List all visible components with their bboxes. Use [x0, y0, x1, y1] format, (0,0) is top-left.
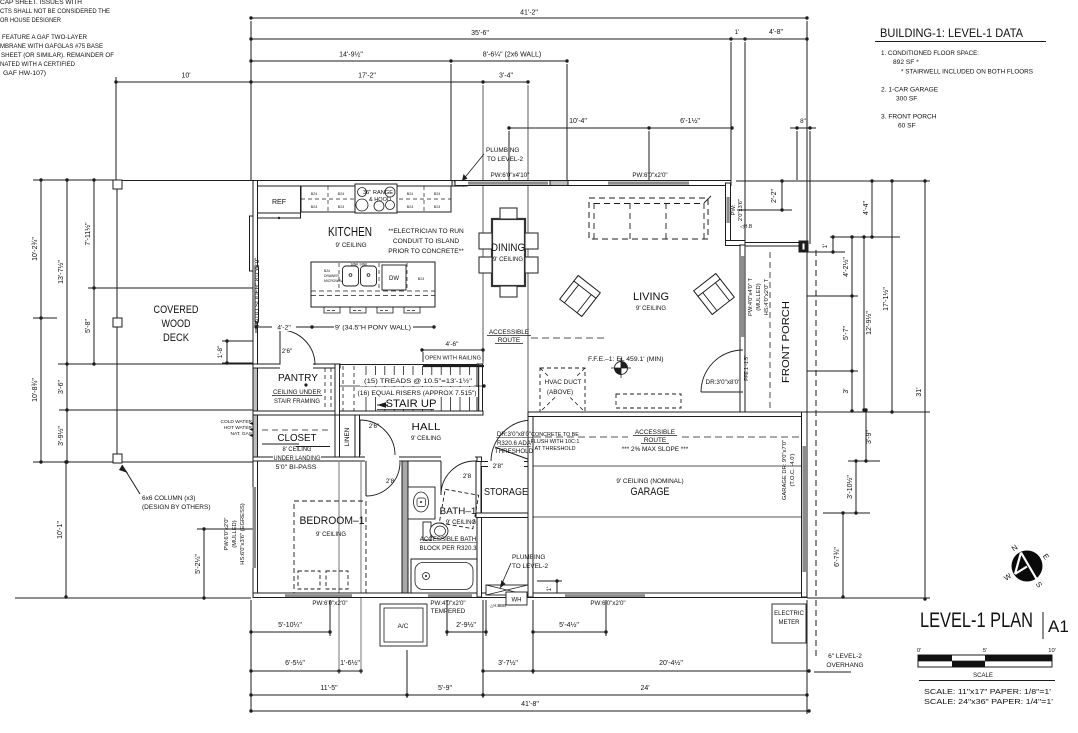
wall closet bottom / bedroom top / bath top: [253, 457, 481, 461]
svg-text:3'-4": 3'-4": [499, 73, 513, 80]
svg-text:PW:4'0"x2'0": PW:4'0"x2'0": [430, 600, 465, 607]
svg-text:TO LEVEL-2: TO LEVEL-2: [487, 156, 524, 163]
svg-text:DECK: DECK: [163, 332, 190, 344]
wall bottom exterior: [253, 593, 807, 598]
wall top living: [455, 181, 731, 186]
svg-text:DRAWER: DRAWER: [324, 274, 339, 278]
entry bench dashed: [616, 394, 681, 408]
svg-text:UNDER LANDING: UNDER LANDING: [274, 455, 321, 462]
svg-text:(ABOVE): (ABOVE): [547, 389, 573, 396]
svg-text:PRIOR TO CONCRETE**: PRIOR TO CONCRETE**: [388, 248, 464, 255]
armchair left rotated: [560, 276, 601, 317]
covered wood deck outline: [116, 180, 118, 462]
dim 4'-2 and 9' pony wall: [256, 326, 312, 328]
svg-text:4'-2½": 4'-2½": [842, 257, 850, 277]
bottom dims row2: [251, 670, 361, 672]
wall storage top: [476, 462, 533, 467]
svg-text:(MULLED): (MULLED): [756, 283, 762, 310]
svg-text:BUILDING-1: LEVEL-1 DATA: BUILDING-1: LEVEL-1 DATA: [880, 28, 1023, 40]
left dim 10'-1: [65, 462, 67, 597]
dim 10'-4 / 6'-1 1/2 / 8in: [509, 127, 732, 129]
svg-text:AT THRESHOLD: AT THRESHOLD: [534, 446, 575, 452]
electric meter: [772, 604, 806, 643]
wall pantry top / kitchen south: [253, 364, 340, 368]
svg-text:ACCESSIBLE BATH: ACCESSIBLE BATH: [420, 536, 477, 543]
left dim 5'-2 1/4: [203, 529, 205, 598]
svg-text:(16) EQUAL RISERS (APPROX 7.51: (16) EQUAL RISERS (APPROX 7.515"): [358, 390, 477, 397]
wall hatch between windows: [550, 181, 568, 186]
stair treads: [342, 366, 344, 411]
svg-text:17'-2": 17'-2": [358, 73, 376, 80]
svg-text:OPEN WITH RAILING: OPEN WITH RAILING: [425, 356, 481, 362]
svg-text:SCALE: 24"x36" PAPER: 1/4"=: SCALE: 24"x36" PAPER: 1/4"=1': [924, 697, 1054, 706]
stair mid landing line: [340, 385, 484, 387]
svg-text:SCALE: SCALE: [973, 673, 993, 679]
right dim 31': [924, 181, 926, 599]
svg-text:(T.O.C. -4.0'): (T.O.C. -4.0'): [790, 453, 796, 486]
svg-text:GARAGE DR: 9'0"x7'0": GARAGE DR: 9'0"x7'0": [782, 440, 788, 500]
svg-text:NATED WITH A CERTIFIED: NATED WITH A CERTIFIED: [0, 61, 75, 68]
bottom dims row3: [251, 694, 807, 696]
svg-text:5'-7": 5'-7": [843, 326, 850, 340]
svg-text:2'8": 2'8": [493, 463, 503, 470]
svg-text:PLUMBING: PLUMBING: [486, 147, 519, 154]
svg-text:1. CONDITIONED FLOOR SPACE:: 1. CONDITIONED FLOOR SPACE:: [881, 50, 979, 57]
svg-text:6'-7¾": 6'-7¾": [834, 547, 841, 567]
svg-text:DR:3'0"x8'0": DR:3'0"x8'0": [706, 379, 741, 386]
island stools: [324, 307, 340, 313]
svg-text:9' CEILING: 9' CEILING: [411, 435, 441, 442]
svg-text:△H.BBB: △H.BBB: [490, 603, 506, 608]
svg-text:6x6 COLUMN (x3): 6x6 COLUMN (x3): [142, 495, 195, 502]
svg-text:B24: B24: [311, 192, 317, 196]
svg-text:FRONT PORCH: FRONT PORCH: [780, 301, 792, 383]
window PW:4'0x4'0 mulled right: [741, 256, 744, 337]
plumbing chase hatched: [486, 585, 528, 595]
right dim 12'-9 1/2: [863, 237, 865, 410]
sectional couch dashed: [589, 198, 708, 239]
svg-text:5'0" BI-PASS: 5'0" BI-PASS: [276, 464, 317, 471]
svg-text:8": 8": [800, 118, 806, 125]
svg-text:A/C: A/C: [398, 623, 409, 630]
svg-text:B24: B24: [434, 192, 440, 196]
bath tub: [411, 559, 477, 593]
patio slider symbol: [250, 216, 254, 271]
svg-text:10'-8¾": 10'-8¾": [32, 378, 39, 402]
svg-text:5'-2¼": 5'-2¼": [195, 554, 202, 574]
svg-text:GAF HW-107): GAF HW-107): [3, 70, 46, 77]
svg-text:BATH–1: BATH–1: [440, 506, 477, 516]
svg-text:9' CEILING: 9' CEILING: [446, 520, 476, 526]
right dim 1' at porch column: [832, 237, 834, 252]
hall door leaf and arc 2'6: [359, 420, 361, 455]
svg-text:NAT. GAS: NAT. GAS: [230, 431, 252, 437]
garage door track lines: [533, 465, 801, 467]
svg-text:CLOSET: CLOSET: [278, 432, 318, 444]
dining chairs: [500, 208, 517, 219]
svg-text:R320.6 ADA: R320.6 ADA: [497, 440, 532, 447]
svg-text:3. FRONT PORCH: 3. FRONT PORCH: [881, 114, 937, 121]
svg-text:PW:6'0"x4'10": PW:6'0"x4'10": [491, 172, 530, 179]
left dim 10'-2 3/4 and 10'-8 3/4: [40, 180, 42, 462]
front door leaf and arc: [701, 391, 743, 393]
bath sink vanity: [408, 487, 435, 519]
right dim 4'-2 1/2 / 5'-7 / 3': [851, 237, 853, 411]
svg-text:10'-4": 10'-4": [569, 118, 587, 125]
bedroom bed dashed: [294, 501, 366, 593]
svg-text:ELECTRIC: ELECTRIC: [774, 611, 804, 617]
svg-text:CTS SHALL NOT BE CONSIDERED TH: CTS SHALL NOT BE CONSIDERED THE: [0, 8, 110, 15]
svg-text:5'-4½": 5'-4½": [559, 621, 579, 629]
stair text notes: [360, 375, 474, 386]
svg-text:FFE:1 -1.5": FFE:1 -1.5": [744, 355, 750, 381]
left dim 13'-7 1/2 / 3'-6 / 3'-9 1/2: [66, 180, 68, 462]
wall left hatch lower: [253, 365, 258, 461]
svg-text:4'-6": 4'-6": [446, 341, 460, 348]
svg-text:9' CEILING: 9' CEILING: [336, 242, 367, 249]
wall garage right: [802, 412, 808, 597]
svg-text:DINING: DINING: [491, 242, 525, 254]
stair open rail line: [340, 364, 483, 366]
svg-text:31': 31': [916, 387, 923, 396]
svg-text:OR HOUSE DESIGNER: OR HOUSE DESIGNER: [0, 17, 61, 24]
svg-text:LIVING: LIVING: [633, 291, 669, 303]
island double sink: [343, 266, 359, 286]
svg-text:STAIR UP: STAIR UP: [386, 398, 437, 410]
wall hatch near jog: [452, 181, 467, 187]
svg-text:892 SF *: 892 SF *: [893, 59, 919, 66]
svg-text:9' (34.5"H PONY WALL): 9' (34.5"H PONY WALL): [335, 325, 411, 332]
svg-text:BEDROOM–1: BEDROOM–1: [300, 515, 365, 527]
wall storage bottom: [476, 513, 533, 518]
kitchen counter along top wall: [301, 186, 451, 212]
dim 41'-2 top: [251, 17, 807, 19]
refrigerator REF: [258, 186, 301, 213]
wall left exterior: [253, 181, 258, 598]
wall bath right: [477, 457, 482, 597]
svg-text:KITCHEN: KITCHEN: [328, 225, 372, 239]
dim 35'-6 / 1' / 4'-8 top: [251, 38, 807, 40]
level-2 overhang dashed line: [815, 250, 817, 660]
svg-text:2'-9½": 2'-9½": [456, 621, 476, 629]
bath toilet: [423, 522, 431, 540]
svg-text:3': 3': [843, 388, 850, 393]
wall stair right cap: [477, 364, 483, 415]
right extension lines: [736, 180, 930, 182]
extension line level2 left of dining x483: [482, 85, 484, 364]
svg-text:2'6": 2'6": [369, 423, 379, 430]
svg-text:CEILING UNDER: CEILING UNDER: [273, 389, 321, 396]
svg-text:12'-9½": 12'-9½": [865, 311, 873, 335]
porch interior dashed: [769, 252, 771, 412]
svg-text:B24: B24: [407, 192, 413, 196]
svg-text:B24: B24: [434, 205, 440, 209]
deck column middle 6x6: [113, 318, 122, 327]
bath clearance dashed rotated: [439, 489, 478, 528]
svg-text:*** 2% MAX SLOPE ***: *** 2% MAX SLOPE ***: [622, 446, 689, 453]
svg-text:1': 1': [822, 244, 829, 249]
north arrow compass: [1012, 551, 1043, 582]
svg-text:5'-10¼": 5'-10¼": [278, 622, 302, 629]
svg-text:FEATURE A GAF TWO-LAYER: FEATURE A GAF TWO-LAYER: [2, 34, 87, 41]
bottom dims row1: [251, 631, 330, 633]
svg-text:9' CEILING (NOMINAL): 9' CEILING (NOMINAL): [616, 478, 683, 485]
svg-text:B24: B24: [407, 205, 413, 209]
water heater WH: [506, 592, 527, 605]
armchair right rotated: [694, 274, 735, 315]
svg-text:STORAGE: STORAGE: [484, 486, 528, 498]
garage door 9'0x7'0: [803, 446, 807, 572]
svg-text:1'-6½": 1'-6½": [340, 659, 360, 667]
svg-text:FLUSH WITH 10C:1: FLUSH WITH 10C:1: [531, 439, 580, 445]
svg-text:6" LEVEL-2: 6" LEVEL-2: [828, 653, 862, 660]
svg-text:9' CEILING: 9' CEILING: [493, 256, 523, 263]
svg-text:COLD WATER: COLD WATER: [221, 419, 253, 425]
svg-text:PW:6'0"x2'0": PW:6'0"x2'0": [632, 172, 667, 179]
svg-text:3'-7½": 3'-7½": [498, 659, 518, 667]
svg-text:PATIO SLIDER: 8'0"x8'0": PATIO SLIDER: 8'0"x8'0": [254, 258, 261, 327]
deck column top 6x6: [113, 180, 122, 189]
wall garage left: [528, 415, 533, 597]
svg-text:13'-7½": 13'-7½": [57, 260, 65, 284]
svg-text:36" RANGE: 36" RANGE: [363, 190, 393, 196]
svg-text:ACCESSIBLE: ACCESSIBLE: [635, 429, 675, 436]
dim 1' at water heater: [556, 581, 558, 595]
kitchen island: [311, 262, 435, 307]
closet rod and bipass dashes: [262, 429, 330, 431]
wall pantry/linen verticals: [335, 364, 340, 415]
dim 1'-8 deck step: [226, 341, 228, 363]
svg-text:METER: METER: [779, 620, 801, 626]
svg-text:2'8: 2'8: [386, 478, 395, 485]
wall right living upper: [726, 183, 731, 241]
wall bedroom/bath divider hatched: [402, 461, 408, 593]
svg-text:B24: B24: [338, 205, 344, 209]
svg-text:2. 1-CAR GARAGE: 2. 1-CAR GARAGE: [881, 87, 939, 94]
svg-text:PANTRY: PANTRY: [278, 372, 318, 384]
svg-text:OVERHANG: OVERHANG: [826, 662, 863, 669]
svg-text:60 SF: 60 SF: [898, 123, 916, 130]
svg-text:**ELECTRICIAN TO RUN: **ELECTRICIAN TO RUN: [388, 228, 464, 235]
svg-text:3'-9½": 3'-9½": [57, 426, 65, 446]
svg-text:PW:6'0"x2'0": PW:6'0"x2'0": [312, 600, 347, 607]
svg-text:WH: WH: [512, 598, 522, 604]
svg-text:WOOD: WOOD: [162, 318, 191, 330]
svg-text:DW: DW: [389, 276, 399, 282]
storage door leaf and arc: [491, 420, 530, 461]
svg-text:4'-8": 4'-8": [769, 29, 783, 36]
svg-text:5': 5': [983, 648, 987, 654]
svg-text:3'-10½": 3'-10½": [846, 475, 854, 499]
dim 2'-2 window right wall: [781, 181, 783, 210]
svg-text:300 SF: 300 SF: [896, 96, 917, 103]
svg-text:14'-9½": 14'-9½": [339, 51, 363, 59]
pantry shelf dashes: [324, 368, 326, 410]
svg-text:8' CEILING: 8' CEILING: [283, 446, 312, 453]
stair railing thick: [423, 365, 484, 367]
island dishwasher DW: [382, 265, 406, 290]
svg-text:◁H.B: ◁H.B: [740, 224, 753, 230]
svg-text:1': 1': [546, 587, 553, 592]
svg-text:PW:: PW:: [731, 204, 737, 215]
leader 6x6 column note: [122, 465, 140, 494]
svg-text:GARAGE: GARAGE: [631, 486, 670, 498]
bedroom door leaf and arc 2'8: [365, 461, 367, 496]
svg-text:10': 10': [1048, 648, 1056, 654]
svg-text:(15) TREADS @ 10.5"=13'-1½": (15) TREADS @ 10.5"=13'-1½": [364, 377, 472, 385]
svg-text:17'-1½": 17'-1½": [882, 287, 890, 311]
svg-text:10'-2¾": 10'-2¾": [32, 237, 39, 261]
svg-text:0': 0': [917, 648, 921, 654]
svg-text:ACCESSIBLE: ACCESSIBLE: [489, 329, 529, 336]
svg-text:THRESHOLD: THRESHOLD: [495, 448, 534, 455]
svg-text:BLOCK PER R320.3: BLOCK PER R320.3: [419, 545, 477, 552]
wall top kitchen: [253, 181, 455, 187]
left dim 7'-11 1/2 / 5'-8: [93, 180, 95, 364]
svg-text:PLUMBING: PLUMBING: [512, 554, 545, 561]
svg-text:A1: A1: [1048, 617, 1069, 636]
extension lines top: [250, 21, 252, 180]
svg-text:35'-6": 35'-6": [471, 30, 489, 37]
window PW:2'0x3'6 right: [727, 197, 730, 223]
window PW:6'0x2'0 top: [608, 182, 689, 185]
wall storage left: [476, 462, 481, 518]
svg-text:CAP SHEET. ISSUES WITH: CAP SHEET. ISSUES WITH: [0, 0, 82, 6]
svg-text:41'-8": 41'-8": [521, 701, 539, 708]
window bedroom left HS:6'0x3'6 egress: [253, 487, 257, 568]
svg-text:2'8: 2'8: [463, 473, 472, 480]
svg-text:6'-1½": 6'-1½": [680, 117, 700, 125]
porch top edge and column: [745, 242, 807, 244]
svg-text:10'-1": 10'-1": [57, 521, 64, 539]
svg-text:HALL: HALL: [412, 422, 442, 433]
AC unit: [380, 604, 427, 646]
window garage bottom PW:6'0x2'0: [565, 594, 645, 597]
left extension lines: [33, 179, 117, 181]
svg-text:10': 10': [181, 73, 190, 80]
svg-text:7'-11½": 7'-11½": [84, 222, 92, 246]
svg-text:LEVEL-1 PLAN: LEVEL-1 PLAN: [920, 608, 1033, 632]
svg-text:HOT WATER: HOT WATER: [224, 425, 253, 431]
svg-text:B24: B24: [324, 269, 330, 273]
wall jog X joint: [454, 181, 464, 187]
wall jog living to porch: [726, 241, 746, 246]
svg-text:5'-9": 5'-9": [438, 685, 452, 692]
svg-text:(MULLED): (MULLED): [232, 520, 238, 547]
dim 10' / 17'-2 / 3'-4: [116, 81, 528, 83]
svg-text:4'-2": 4'-2": [277, 325, 291, 332]
svg-text:HS:6'0"x3'6" (EGRESS): HS:6'0"x3'6" (EGRESS): [240, 503, 246, 564]
svg-text:DR:3'0"x8'0": DR:3'0"x8'0": [497, 431, 531, 438]
svg-text:SCALE: 11"x17" PAPER: 1/8"=: SCALE: 11"x17" PAPER: 1/8"=1': [924, 687, 1052, 696]
dining table: [492, 219, 525, 286]
svg-text:24': 24': [640, 685, 649, 692]
scale bar: [918, 655, 1052, 667]
svg-text:4'-4": 4'-4": [863, 201, 870, 215]
svg-text:8'-6¼" (2x6 WALL): 8'-6¼" (2x6 WALL): [483, 52, 541, 59]
svg-text:3'-6": 3'-6": [58, 380, 65, 394]
svg-text:SINK SINK: SINK SINK: [351, 263, 369, 267]
svg-text:9' CEILING: 9' CEILING: [316, 531, 346, 538]
svg-text:11'-5": 11'-5": [320, 685, 338, 692]
svg-text:2'6": 2'6": [282, 348, 292, 355]
wall under stairs: [253, 411, 483, 415]
svg-text:SHEET (OR SIMILAR). REMAINDER: SHEET (OR SIMILAR). REMAINDER OF: [1, 52, 114, 59]
svg-text:B24: B24: [338, 192, 344, 196]
svg-text:41'-2": 41'-2": [520, 10, 538, 17]
svg-text:9' CEILING: 9' CEILING: [636, 305, 666, 312]
svg-text:B24: B24: [418, 277, 424, 281]
front door opening: [741, 351, 745, 392]
svg-text:REF: REF: [272, 199, 286, 206]
svg-text:3'-9": 3'-9": [866, 430, 873, 444]
svg-text:5'-8": 5'-8": [85, 319, 92, 333]
svg-text:2'-2": 2'-2": [771, 189, 778, 203]
right dim 4'-4: [871, 181, 873, 237]
svg-text:B24: B24: [311, 205, 317, 209]
svg-text:1'-8": 1'-8": [217, 346, 224, 359]
window bath bottom PW:4'0x2'0 tempered: [428, 594, 472, 597]
wall right lower with front door: [740, 245, 745, 412]
deck column bottom 6x6: [113, 454, 122, 463]
bath door leaf and arc 2'8: [440, 461, 442, 495]
right dim 3'-9 / 3'-10 1/2 / 6'-7 3/4: [865, 410, 867, 461]
svg-text:* STAIRWELL INCLUDED ON BOTH: * STAIRWELL INCLUDED ON BOTH FLOORS: [901, 69, 1034, 76]
wall garage top / living south: [528, 412, 807, 417]
svg-text:ROUTE: ROUTE: [498, 337, 520, 344]
svg-text:ROUTE: ROUTE: [644, 437, 666, 444]
window PW:6'0x4'10 top: [468, 182, 548, 185]
svg-text:TEMPERED: TEMPERED: [431, 608, 466, 615]
svg-text:TO LEVEL-2: TO LEVEL-2: [512, 563, 549, 570]
svg-text:1': 1': [735, 29, 740, 36]
porch right edge: [806, 252, 808, 412]
window bedroom bottom PW:6'0x2'0: [285, 594, 352, 597]
svg-text:F.F.E.–1: EL 459.1' (MIN): F.F.E.–1: EL 459.1' (MIN): [588, 356, 663, 363]
bottom dim 41'-8: [251, 710, 809, 712]
svg-text:& HOOD: & HOOD: [369, 197, 391, 203]
svg-text:2'0"x3'6": 2'0"x3'6": [738, 199, 744, 221]
bottom extension lines: [250, 600, 252, 711]
svg-text:HVAC DUCT: HVAC DUCT: [545, 379, 582, 386]
svg-text:LINEN: LINEN: [344, 427, 351, 446]
svg-text:PW:4'0"x4'0" T: PW:4'0"x4'0" T: [748, 278, 754, 316]
svg-text:CONDUIT TO ISLAND: CONDUIT TO ISLAND: [393, 238, 460, 245]
right dim 17'-1 1/2: [891, 181, 893, 412]
extension line level2 x528: [527, 85, 529, 412]
svg-text:6'-5½": 6'-5½": [285, 659, 305, 667]
pantry door leaf and arc 2'6: [279, 330, 281, 365]
svg-text:HS:4'0"x2'0" T: HS:4'0"x2'0" T: [764, 278, 770, 315]
svg-text:PW:6'0"x2'0": PW:6'0"x2'0": [590, 600, 625, 607]
range 36in with hood: [355, 184, 397, 213]
svg-text:PW:6'0"x2'0": PW:6'0"x2'0": [224, 518, 230, 551]
svg-text:STAIR FRAMING: STAIR FRAMING: [274, 398, 320, 405]
HVAC duct dashed: [540, 368, 585, 412]
svg-text:20'-4½": 20'-4½": [659, 659, 683, 667]
label STAIR UP: [376, 397, 438, 409]
dim 4'-6 open with railing: [422, 349, 483, 351]
dim 14'-9 1/2 and 8'-6 1/4 2x6 wall: [251, 60, 567, 62]
svg-text:COVERED: COVERED: [154, 304, 199, 316]
svg-text:MBRANE WITH GAFGLAS #75 BASE: MBRANE WITH GAFGLAS #75 BASE: [0, 43, 103, 50]
svg-text:(DESIGN BY OTHERS): (DESIGN BY OTHERS): [142, 504, 211, 511]
